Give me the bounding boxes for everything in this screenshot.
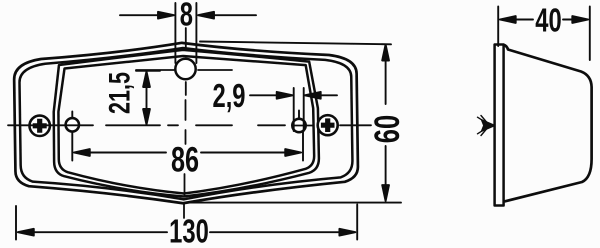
mounting hole left (66, 118, 79, 131)
dimension 60 extension lines (186, 42, 401, 203)
front view outer outline (14, 40, 359, 205)
side view flange bar (495, 45, 504, 206)
front view outlines (tilted as in scan) (14, 40, 359, 205)
dimension 40 line with arrows (500, 16, 589, 23)
screw left (30, 116, 50, 136)
dimension 21,5 extension line (136, 70, 160, 72)
dimension 8 extension lines (175, 3, 196, 63)
vertical centerline (184, 28, 186, 218)
circle horizontal centerline (136, 69, 232, 71)
dimension 130 line with arrows (18, 229, 356, 236)
svg-text:40: 40 (535, 3, 561, 40)
dimension 2,9 extension lines (294, 88, 304, 131)
front view inner outline (19, 46, 353, 202)
dimension 40 extension lines (498, 7, 590, 61)
svg-text:130: 130 (169, 214, 209, 248)
svg-text:21,5: 21,5 (102, 72, 136, 114)
dimension 60 line with arrows (382, 45, 389, 202)
mounting hole right (292, 119, 305, 132)
lens outline (53, 48, 320, 198)
dimension 21,5 line with arrows (143, 72, 150, 125)
top hole (8mm slot circle) (175, 59, 195, 79)
side view lens profile (504, 45, 592, 202)
svg-text:86: 86 (171, 141, 199, 180)
dimension 86 line with arrows (74, 149, 301, 156)
mounting surface arrow (478, 116, 495, 136)
svg-text:60: 60 (368, 115, 407, 143)
dimension 8 arrows (120, 12, 256, 19)
horizontal centerline (8, 124, 371, 126)
screw right (318, 115, 338, 135)
dimension 130 extension lines (16, 205, 357, 240)
svg-text:2,9: 2,9 (212, 78, 245, 115)
dimension 86 extension lines (72, 111, 303, 161)
lens inner line (57, 54, 314, 195)
svg-text:8: 8 (180, 0, 193, 34)
dimension 2,9 arrows (250, 92, 337, 99)
